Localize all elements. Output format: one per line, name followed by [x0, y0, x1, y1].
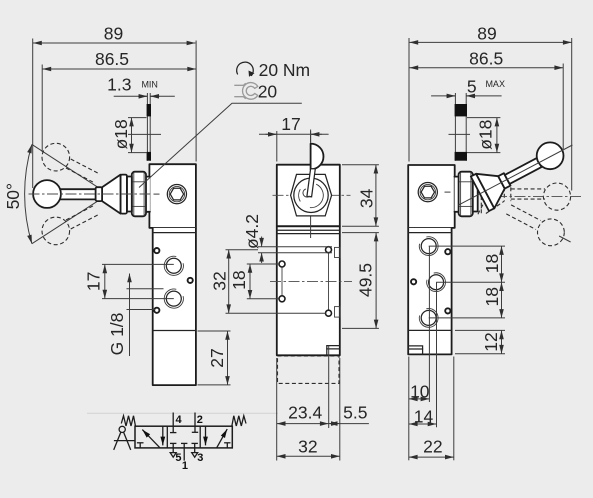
symbol middle cell: port 2 stub	[194, 413, 196, 433]
right view base separator line	[408, 329, 451, 331]
dashed lever up: collar ticks	[116, 178, 121, 188]
dim 89 right view	[409, 41, 571, 43]
dim o18 right panel	[496, 118, 498, 153]
svg-text:32: 32	[210, 271, 230, 290]
wrench icon	[235, 83, 258, 100]
dashed lever down: collar ticks	[116, 200, 121, 210]
symbol spring right	[232, 416, 246, 426]
right view valve top block	[408, 165, 455, 228]
dim 17 (port spacing)	[104, 264, 106, 298]
left view hex socket	[170, 188, 183, 200]
middle view screw hole bottom-right	[326, 310, 332, 316]
svg-text:49.5: 49.5	[356, 263, 376, 297]
left view lower body	[153, 228, 196, 385]
dashed lever up position: ball	[42, 143, 70, 171]
symbol middle cell: port 1 stub	[183, 443, 185, 460]
symbol lever legs	[114, 432, 121, 450]
dim 86.5 left view	[42, 68, 196, 70]
right view gasket line	[408, 232, 451, 234]
right lever taper cone (rotated)	[476, 174, 505, 209]
right dashed horizontal collar outline	[503, 187, 505, 201]
right dashed lever horizontal: ball	[543, 183, 570, 210]
svg-text:89: 89	[477, 23, 496, 43]
svg-text:3: 3	[197, 452, 203, 464]
left view valve top block	[149, 164, 196, 228]
right nut facet lines	[459, 181, 472, 183]
symbol valve box	[135, 426, 232, 448]
svg-text:20: 20	[258, 82, 278, 102]
symbol middle cell: port 4 stub	[172, 413, 174, 433]
middle view lever stem	[307, 169, 315, 197]
svg-text:17: 17	[281, 114, 300, 134]
right dashed lever down: ball	[538, 219, 565, 246]
leader line to nut	[139, 103, 302, 187]
svg-text:ø18: ø18	[476, 120, 496, 150]
lever neck stubs at block face	[146, 177, 150, 211]
left view hex socket plug outer circle	[167, 185, 186, 204]
svg-text:27: 27	[207, 348, 227, 367]
panel cross-section detail (1.3 MIN) lines	[146, 93, 148, 161]
right view plug centerline tick	[445, 191, 451, 193]
middle view horizontal centerline	[273, 194, 351, 196]
middle view body centerline	[270, 280, 352, 282]
dim 17 (lever offset)	[259, 133, 329, 135]
dim 5 MAX	[431, 95, 455, 97]
right dashed down collar ticks	[473, 202, 478, 212]
svg-text:34: 34	[356, 188, 376, 208]
dim o4.2 screw holes	[258, 246, 332, 248]
svg-text:22: 22	[423, 437, 442, 457]
symbol right cell: flow arrow diagonal	[217, 429, 228, 448]
left view port G1/8 upper: outer thread arc	[164, 256, 183, 275]
left view port G1/8 lower: outer thread arc	[164, 289, 183, 308]
lever ball knob	[33, 180, 61, 208]
right view bottom-left tab	[408, 346, 422, 355]
dashed lever down position: ball	[42, 217, 70, 245]
svg-text:MIN: MIN	[141, 79, 158, 89]
faint page rule	[87, 412, 278, 414]
right view screw hole bottom-right	[445, 308, 450, 313]
dim 22	[409, 456, 454, 458]
dashed lever up: shaft lines	[71, 159, 100, 174]
svg-text:ø4.2: ø4.2	[242, 214, 262, 249]
right lever shaft (rotated)	[505, 158, 542, 184]
svg-text:23.4: 23.4	[288, 402, 322, 422]
symbol right cell: blocked port T	[226, 443, 228, 448]
dim 18 upper	[501, 246, 503, 282]
left view screw hole right	[188, 278, 193, 283]
right view hex socket	[421, 186, 434, 198]
lever taper cone	[102, 175, 120, 214]
right dashed horizontal shaft lines	[511, 188, 545, 190]
dim 23.4 / 5.5 extension verticals	[276, 358, 278, 461]
right view port 1 outer thread arc	[427, 273, 446, 292]
svg-text:5.5: 5.5	[343, 402, 367, 422]
lever mounting nut (side view)	[132, 172, 146, 217]
symbol exhaust triangle port 3	[192, 453, 198, 458]
symbol left cell: down flow arrow	[162, 426, 164, 445]
dim 34 (block height)	[375, 165, 377, 227]
middle view screw hole top-left	[279, 261, 285, 267]
symbol spring left	[121, 416, 135, 426]
symbol cell divider left	[166, 426, 168, 448]
right view port 1 inner circle	[429, 275, 444, 290]
svg-text:2: 2	[197, 414, 203, 426]
middle view main body	[277, 226, 340, 355]
svg-text:1.3: 1.3	[107, 74, 131, 94]
right panel cross-section detail (5 MAX) lines	[454, 93, 456, 161]
symbol right cell: down flow arrow	[205, 426, 207, 445]
dim 1.3 MIN	[114, 95, 148, 97]
dim 10	[409, 398, 430, 400]
middle view screw columns	[281, 267, 283, 295]
middle view ball knob (D-shape)	[311, 144, 324, 170]
dim o18 left panel	[131, 118, 133, 153]
symbol left cell: flow arrow diagonal	[142, 430, 159, 448]
svg-text:86.5: 86.5	[95, 49, 129, 69]
right lever washer 1 (rotated)	[471, 174, 495, 211]
svg-text:86.5: 86.5	[469, 49, 503, 69]
right lever axis centerline	[458, 145, 572, 205]
svg-text:18: 18	[482, 254, 502, 273]
left view plug centerline tick	[154, 193, 160, 195]
lever washer 1	[121, 175, 127, 214]
nut chamfer lines	[133, 172, 135, 215]
dim 86.5 right view	[409, 67, 563, 69]
right nut chamfer lines	[460, 172, 462, 215]
svg-text:17: 17	[83, 272, 103, 291]
right view screw hole left	[411, 279, 416, 284]
middle view screw hole top-right	[326, 247, 332, 253]
svg-text:5: 5	[467, 76, 477, 96]
middle view hidden base (dashed)	[278, 356, 340, 383]
right view hex socket plug inner circle	[420, 184, 435, 199]
right lever small collar (rotated)	[498, 173, 510, 188]
right view screw hole top-right	[445, 249, 450, 254]
svg-text:MAX: MAX	[485, 79, 505, 89]
dim 49.5 (body height)	[375, 233, 377, 329]
symbol middle cell: port 5 stub	[172, 443, 174, 452]
left view base separator line	[153, 330, 196, 332]
svg-text:12: 12	[481, 332, 501, 351]
dim 14	[409, 423, 437, 425]
symbol cell divider right	[199, 426, 201, 448]
svg-text:89: 89	[104, 24, 123, 44]
dim 32 bottom	[277, 455, 340, 457]
dim 18 lower	[501, 282, 503, 318]
svg-text:G 1/8: G 1/8	[107, 313, 127, 356]
dim 12	[455, 329, 505, 331]
right lever mounting nut (side view)	[459, 172, 473, 217]
left view screw hole top-left	[154, 248, 159, 253]
svg-text:20 Nm: 20 Nm	[259, 60, 311, 80]
right view hex socket plug outer circle	[418, 183, 437, 202]
symbol left cell: blocked port T	[139, 443, 141, 448]
middle view right-edge slot top	[335, 247, 340, 257]
50 deg angle legs	[32, 144, 106, 192]
50 deg arc	[25, 144, 32, 243]
dim 23.4	[277, 423, 329, 425]
middle view gasket lines	[277, 229, 340, 231]
left view hex socket plug inner circle	[169, 186, 184, 201]
right dashed down shaft lines	[506, 214, 536, 230]
lever washer 2	[127, 177, 132, 212]
right panel black bar bottom	[455, 152, 467, 161]
dim 89 left view	[33, 42, 195, 44]
left view port G1/8 lower inner circle	[166, 291, 181, 306]
right lever neck stubs at block face	[455, 177, 459, 211]
middle view screw hole bottom-left	[279, 296, 285, 302]
symbol lever circle	[119, 426, 125, 432]
middle view stem hook	[303, 189, 310, 197]
right view port 2 outer thread arc	[419, 308, 438, 327]
dim 27	[227, 331, 229, 385]
right view lower body	[408, 228, 451, 355]
symbol lever crossbar	[114, 440, 135, 442]
right lever ball knob	[537, 142, 564, 169]
bottom dims extension verticals	[408, 357, 410, 461]
symbol middle cell: port 3 stub	[194, 443, 196, 452]
panel black bar top	[147, 104, 151, 116]
right panel black bar top	[455, 104, 467, 116]
right lever washer 2	[473, 177, 478, 212]
svg-text:18: 18	[482, 287, 502, 306]
dim 18 (left screw pitch)	[249, 264, 251, 299]
lever small collar	[96, 187, 103, 201]
svg-text:14: 14	[414, 406, 434, 426]
svg-text:1: 1	[182, 460, 188, 472]
dashed lever down: shaft lines	[66, 205, 95, 220]
svg-text:5: 5	[175, 452, 181, 464]
panel black bar bottom	[147, 152, 151, 161]
middle view right-edge slot bottom	[335, 307, 340, 318]
right view port 4 inner circle	[421, 239, 436, 254]
right view port 2 inner circle	[421, 310, 436, 325]
middle view nut boss circle	[294, 178, 328, 212]
left view port G1/8 upper inner circle	[166, 258, 181, 273]
right dashed horizontal washer/cone marks	[480, 196, 482, 214]
nut facet lines	[132, 181, 145, 183]
middle view lever vertical centerline	[310, 130, 312, 239]
svg-text:4: 4	[176, 414, 183, 426]
dim 5.5	[329, 423, 340, 425]
right dashed down centerline segment	[559, 236, 571, 242]
middle view hex nut	[291, 174, 332, 216]
lever centerline	[29, 193, 152, 195]
middle view dome cap arc left	[299, 189, 301, 201]
right port leader lines	[429, 245, 505, 247]
right view port 4 outer thread arc	[419, 237, 438, 256]
right dashed horizontal centerline	[496, 196, 582, 198]
left view screw hole bottom-left	[154, 308, 159, 313]
symbol exhaust triangle port 5	[170, 453, 176, 458]
svg-text:32: 32	[298, 436, 317, 456]
middle view dome cap arc right	[310, 184, 323, 207]
middle view top block	[277, 165, 340, 227]
torque note: rotation arrow icon	[237, 62, 254, 75]
svg-text:18: 18	[229, 270, 249, 289]
svg-text:ø18: ø18	[111, 119, 131, 149]
svg-text:10: 10	[410, 381, 430, 401]
dim 32 (screw vertical pitch)	[228, 250, 230, 314]
left view gasket line	[153, 232, 196, 234]
svg-text:50°: 50°	[3, 183, 23, 209]
lever shaft	[60, 189, 96, 199]
middle view bottom-right tab	[327, 346, 340, 356]
